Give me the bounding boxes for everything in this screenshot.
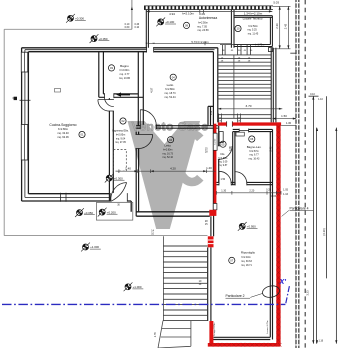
- elevation marker m5a: [75, 208, 84, 217]
- small dims misc: [12, 97, 225, 286]
- svg-text:1.16: 1.16: [318, 339, 323, 342]
- boundary dashed line: [304, 0, 306, 348]
- svg-text:mq. 16.43: mq. 16.43: [249, 157, 260, 160]
- svg-text:mq. 52.10: mq. 52.10: [162, 156, 173, 159]
- svg-text:1.40: 1.40: [206, 166, 212, 170]
- autorimessa walls: [146, 10, 234, 48]
- svg-text:Dis.: Dis.: [220, 152, 225, 156]
- svg-text:Letto: Letto: [164, 144, 171, 148]
- svg-text:mq. 32.40: mq. 32.40: [57, 131, 69, 135]
- svg-text:h=2.68m: h=2.68m: [218, 158, 227, 160]
- stairs top: [218, 55, 271, 99]
- svg-text:Cucina-Soggiorno: Cucina-Soggiorno: [49, 123, 76, 127]
- svg-text:mq. 16.73: mq. 16.73: [162, 152, 173, 155]
- fence line right: [296, 0, 299, 348]
- red window block: [208, 236, 214, 247]
- svg-text:05: 05: [222, 142, 225, 146]
- red bottom-left band: [209, 321, 213, 344]
- svg-text:h=2.80m: h=2.80m: [58, 127, 68, 131]
- landing jamb stubs: [219, 114, 241, 123]
- red wall right band: [276, 122, 280, 343]
- svg-text:2.20: 2.20: [249, 189, 254, 192]
- lot line top-center: [131, 0, 133, 29]
- door arcs: [98, 97, 247, 201]
- svg-text:mq. 10.86: mq. 10.86: [119, 77, 131, 80]
- svg-text:02: 02: [122, 119, 125, 123]
- blue section line: [2, 303, 285, 305]
- elevation marker m3: [156, 18, 165, 27]
- svg-text:Autorimessa: Autorimessa: [199, 16, 217, 20]
- dim line garage bottom: [148, 42, 231, 45]
- elevation marker m5b: [98, 208, 107, 217]
- svg-text:04: 04: [169, 138, 172, 142]
- svg-text:4.57: 4.57: [149, 87, 153, 93]
- svg-text:1.30: 1.30: [221, 189, 226, 192]
- svg-text:Ingresso/Dis.: Ingresso/Dis.: [112, 129, 129, 133]
- stairs bottom trapezoid: [158, 321, 191, 348]
- svg-text:Ripostiglio: Ripostiglio: [241, 251, 256, 255]
- svg-text:mq. 27.05: mq. 27.05: [115, 141, 126, 144]
- elevation marker m4: [105, 174, 114, 183]
- dim line mid 4.20: [117, 169, 215, 173]
- svg-text:09: 09: [185, 24, 188, 28]
- svg-text:mq. 4.77: mq. 4.77: [120, 73, 130, 76]
- svg-text:+1.000: +1.000: [90, 245, 99, 249]
- room label dis: [220, 141, 226, 147]
- watermark logo V: [128, 119, 209, 229]
- svg-text:Letto: Letto: [167, 83, 174, 87]
- svg-text:mq. 24.59: mq. 24.59: [197, 29, 209, 32]
- window in red wall: [213, 133, 217, 150]
- svg-text:h=2.60m: h=2.60m: [120, 69, 130, 72]
- svg-text:1.05: 1.05: [283, 189, 288, 192]
- svg-text:h max=1.70m: h max=1.70m: [267, 320, 269, 333]
- svg-text:h sup=3.23m: h sup=3.23m: [214, 322, 216, 335]
- svg-text:mq. 5.25: mq. 5.25: [247, 29, 257, 32]
- svg-text:04: 04: [172, 75, 175, 79]
- dim top-center lot: [131, 7, 133, 10]
- svg-text:1.50: 1.50: [220, 178, 225, 181]
- svg-text:2.43: 2.43: [284, 23, 288, 29]
- svg-text:1.50: 1.50: [281, 114, 287, 118]
- svg-text:0.90: 0.90: [229, 145, 232, 150]
- svg-text:0.10: 0.10: [134, 26, 139, 29]
- svg-text:mq. 52.44: mq. 52.44: [164, 96, 176, 99]
- svg-text:Particolare 4: Particolare 4: [290, 206, 309, 210]
- particolare 4 label: [290, 206, 309, 210]
- svg-text:mq. 11.45: mq. 11.45: [248, 32, 259, 35]
- wall tick marks: [20, 100, 67, 202]
- svg-text:4.94: 4.94: [169, 12, 175, 16]
- svg-text:+0.200: +0.200: [107, 210, 116, 214]
- dashed closet: [113, 150, 126, 172]
- svg-text:h=2.40m: h=2.40m: [241, 256, 250, 259]
- elevation marker m2: [90, 34, 99, 43]
- svg-text:01: 01: [81, 133, 84, 137]
- detail ellipse: [261, 284, 280, 299]
- svg-text:1.34 h=2.10m: 1.34 h=2.10m: [244, 11, 263, 15]
- svg-text:mq. 7.05: mq. 7.05: [197, 25, 207, 28]
- exterior walls: [22, 48, 218, 216]
- svg-text:2.36: 2.36: [275, 23, 279, 29]
- svg-text:0.15: 0.15: [271, 195, 276, 198]
- radiator: [236, 132, 244, 136]
- svg-text:3.23: 3.23: [305, 290, 309, 296]
- red wall left segments: [214, 124, 217, 134]
- svg-text:(3.10): (3.10): [322, 228, 326, 235]
- svg-text:3.70: 3.70: [245, 104, 251, 108]
- svg-text:1.10: 1.10: [318, 98, 323, 101]
- svg-text:Particolare 2: Particolare 2: [226, 294, 245, 298]
- svg-text:mq. 30.63: mq. 30.63: [241, 260, 252, 263]
- svg-text:03: 03: [110, 66, 113, 70]
- svg-text:h=2.85m: h=2.85m: [116, 134, 125, 137]
- wall openings: [105, 47, 249, 202]
- svg-text:1.76: 1.76: [154, 332, 157, 337]
- interior walls: [99, 48, 219, 216]
- elevation marker m7: [124, 282, 133, 291]
- svg-text:Veneto Case: Veneto Case: [132, 119, 209, 133]
- dim 3.70 stairs: [218, 108, 282, 110]
- elevation marker m8: [238, 222, 247, 231]
- svg-text:h=1.70m: h=1.70m: [255, 43, 264, 46]
- svg-text:mq. 6.77: mq. 6.77: [249, 154, 259, 157]
- duct shaft in dis: [219, 132, 223, 143]
- svg-text:+0.100: +0.100: [165, 20, 174, 24]
- svg-text:mq. 9.87: mq. 9.87: [218, 165, 228, 167]
- svg-text:mq. 92.36: mq. 92.36: [57, 135, 69, 139]
- svg-text:h=2.87m: h=2.87m: [249, 150, 258, 153]
- svg-text:1.16: 1.16: [283, 193, 288, 196]
- svg-text:0.30: 0.30: [12, 97, 17, 100]
- room label letto B: [168, 137, 174, 143]
- svg-text:4.20: 4.20: [170, 166, 176, 170]
- stair top stubs: [220, 45, 253, 55]
- hatched wall band: [144, 6, 273, 10]
- room label letto A: [170, 74, 176, 80]
- elevation marker m6: [81, 243, 90, 252]
- svg-text:X': X': [279, 277, 287, 286]
- room label bagno: [108, 65, 114, 71]
- svg-text:h=2.10m: h=2.10m: [182, 12, 194, 16]
- svg-text:+0.050: +0.050: [84, 211, 93, 215]
- room label bagno-lav: [249, 136, 255, 142]
- room label ingresso: [120, 118, 126, 124]
- bagno-lav walls: [208, 129, 273, 339]
- svg-text:+0.050: +0.050: [99, 37, 108, 41]
- dim verticals far right: [290, 53, 336, 343]
- svg-text:+0.950: +0.950: [247, 225, 256, 229]
- dim line bagnolav bottom: [217, 191, 282, 195]
- svg-text:h=2.50m: h=2.50m: [198, 21, 208, 24]
- svg-text:0.10: 0.10: [310, 93, 315, 96]
- svg-text:mq. 9.04: mq. 9.04: [116, 137, 126, 140]
- svg-text:h=2.80m: h=2.80m: [163, 149, 172, 152]
- bagno arrow symbol: [121, 94, 130, 96]
- svg-text:0.60: 0.60: [125, 26, 130, 29]
- svg-text:Bagno: Bagno: [120, 64, 129, 68]
- svg-text:mq. 18.73: mq. 18.73: [164, 92, 176, 95]
- elevation marker m1: [66, 14, 75, 23]
- dim verticals right of locale: [272, 6, 290, 49]
- svg-text:5.73 h=2.29m: 5.73 h=2.29m: [191, 40, 209, 44]
- window left wall upper: [21, 52, 27, 160]
- svg-text:+0.300: +0.300: [75, 17, 84, 21]
- svg-text:1.40: 1.40: [125, 166, 131, 170]
- svg-text:07: 07: [230, 259, 233, 263]
- room label ripostiglio: [229, 257, 235, 263]
- dim line top garage: [146, 10, 272, 14]
- svg-text:10: 10: [237, 27, 240, 31]
- kitchen fixture: [55, 89, 61, 93]
- red wall top band: [218, 122, 227, 125]
- svg-text:06: 06: [250, 137, 253, 141]
- svg-text:2.40: 2.40: [270, 146, 273, 151]
- room label locale tecnico: [235, 25, 241, 31]
- svg-text:+1.000: +1.000: [133, 285, 142, 289]
- svg-text:h=2.40: h=2.40: [215, 138, 217, 145]
- svg-text:1.30: 1.30: [286, 121, 292, 125]
- dim 1.50 right: [272, 119, 296, 126]
- small door box: [268, 48, 272, 52]
- red bottom band: [208, 343, 281, 347]
- stairs bottom: [163, 246, 207, 321]
- entrance porch rect: [96, 203, 132, 221]
- red top door jambs: [227, 121, 233, 126]
- svg-text:mq. 3.09: mq. 3.09: [218, 162, 228, 164]
- svg-text:0.28: 0.28: [266, 189, 271, 192]
- locale tecnico walls: [234, 16, 272, 47]
- svg-text:+0.300: +0.300: [114, 176, 123, 180]
- svg-text:5.03: 5.03: [273, 0, 279, 4]
- room label autorimessa: [183, 22, 189, 28]
- room label cucina: [79, 131, 85, 137]
- svg-text:Bagno-Lav.: Bagno-Lav.: [247, 145, 262, 149]
- blue section diagonal: [286, 286, 290, 303]
- svg-text:Locale Tecnico: Locale Tecnico: [243, 17, 263, 21]
- lot boundary lines: [4, 29, 207, 235]
- red corner: [209, 210, 216, 216]
- svg-text:h=2.80m: h=2.80m: [165, 88, 175, 91]
- svg-text:mq. 18.71: mq. 18.71: [241, 264, 252, 267]
- svg-text:h=2.50m: h=2.50m: [248, 25, 257, 28]
